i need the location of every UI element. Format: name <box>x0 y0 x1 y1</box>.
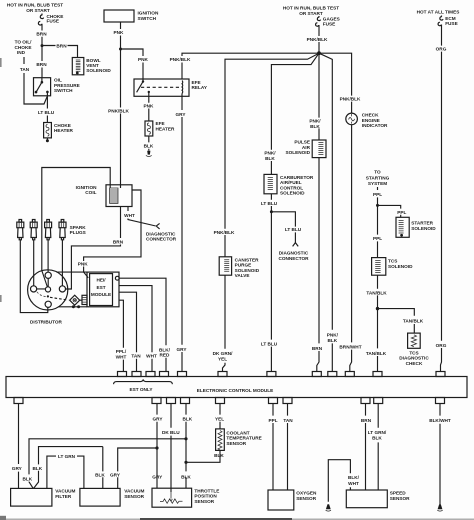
svg-text:GRY: GRY <box>152 474 163 479</box>
wire DK GRN/YEL canister to ECM <box>223 275 226 371</box>
switch OIL PRESSURE SWITCH <box>34 78 80 96</box>
wire LT GRN/BLK ECM to speed sensor <box>368 404 387 491</box>
ground (EFE heater) <box>146 151 152 157</box>
wire pickup dashed line to connector <box>50 297 68 300</box>
wire pickup dashed arc <box>37 292 47 297</box>
svg-text:BLK: BLK <box>144 144 154 149</box>
wire BRN from choke fuse <box>36 26 47 46</box>
svg-text:BLK: BLK <box>310 124 320 129</box>
pin ECM top: GRY <box>178 372 187 377</box>
svg-text:GRY: GRY <box>12 466 23 471</box>
svg-text:TAN: TAN <box>283 418 293 423</box>
distributor cap terminal (bottom) <box>45 301 51 307</box>
wire BLK/WHT ECM to ground <box>429 404 451 505</box>
svg-text:PNK: PNK <box>144 103 155 108</box>
svg-text:SOLENOID: SOLENOID <box>280 191 305 196</box>
wire module pin to TAN <box>119 292 137 371</box>
wire spark plug 3 lead <box>47 240 49 272</box>
node: TO OIL/CHOKE IND <box>15 40 33 55</box>
box SPEED SENSOR <box>346 490 410 508</box>
coil IGNITION COIL <box>76 185 132 207</box>
svg-text:PPL: PPL <box>268 418 277 423</box>
pin ECM top: WHT <box>146 372 155 377</box>
wire PNK/BLK to pulse air solenoid <box>309 53 321 140</box>
wire GRY ECM to TPS <box>153 404 164 489</box>
pin ECM bottom: LT GRN/BLK <box>374 398 383 404</box>
svg-text:BLK: BLK <box>265 156 275 161</box>
spark plug 2 <box>30 220 37 240</box>
svg-text:BLK: BLK <box>214 453 224 458</box>
node: BLK/RED label <box>159 347 171 357</box>
fuse CHOKE FUSE <box>38 14 63 26</box>
wire module pin to WHT <box>119 286 152 372</box>
wire TAN/BLK to ECM <box>366 309 387 372</box>
node: DIAGNOSTIC CONNECTOR label (center) <box>278 251 309 261</box>
node: DIAGNOSTIC CONNECTOR label (left) <box>146 231 177 241</box>
wire BRN ECM to speed sensor <box>361 404 372 491</box>
svg-text:VALVE: VALVE <box>235 273 250 278</box>
svg-text:LT BLU: LT BLU <box>261 342 278 347</box>
svg-text:CONNECTOR: CONNECTOR <box>146 237 177 242</box>
wire DK BLU ECM to TPS wiper <box>162 404 180 493</box>
pin ECM top: DK GRN/YEL <box>218 372 227 377</box>
node junction BLK (coolant line) <box>184 461 187 464</box>
wire GRY from EFE relay down to ECM <box>176 93 187 371</box>
svg-text:PNK/BLK: PNK/BLK <box>108 108 129 113</box>
svg-text:SYSTEM: SYSTEM <box>368 181 387 186</box>
svg-text:GRY: GRY <box>153 416 164 421</box>
wire BRN branch to bowl vent solenoid <box>42 43 78 57</box>
svg-text:TO: TO <box>374 170 381 175</box>
svg-text:RELAY: RELAY <box>192 85 208 90</box>
svg-text:TAN: TAN <box>131 354 141 359</box>
solenoid TCS SOLENOID <box>372 258 413 276</box>
pin ECM top: TAN <box>132 372 141 377</box>
lamp CHECK ENGINE INDICATOR <box>346 113 388 128</box>
wire BRN down to oil pressure switch <box>36 46 47 78</box>
wire BLK vacuum filter to vacuum sensor <box>32 447 102 489</box>
svg-text:BRN: BRN <box>56 43 67 48</box>
svg-text:SOLENOID: SOLENOID <box>411 226 436 231</box>
pin ECM bottom: DK BLU <box>167 398 176 404</box>
connector pickup coil (diamond) <box>70 295 80 305</box>
resistor CHOKE HEATER <box>44 123 74 143</box>
svg-text:TAN/BLK: TAN/BLK <box>403 319 424 324</box>
svg-text:PNK: PNK <box>78 261 89 266</box>
svg-text:ORG: ORG <box>436 47 447 52</box>
distributor cap terminal (left) <box>30 286 36 292</box>
svg-text:DK GRN/: DK GRN/ <box>213 351 233 356</box>
svg-text:SOLENOID: SOLENOID <box>286 150 311 155</box>
wire PPL to TCS solenoid <box>373 205 382 257</box>
svg-text:PNK/BLK: PNK/BLK <box>214 230 235 235</box>
svg-text:PNK/BLK: PNK/BLK <box>170 57 191 62</box>
svg-text:SENSOR: SENSOR <box>194 499 214 504</box>
node: HOT IN RUN feed (left) <box>7 3 63 13</box>
pin ECM bottom: TAN <box>283 398 292 404</box>
svg-text:BRN: BRN <box>113 239 124 244</box>
svg-text:BLK: BLK <box>182 416 192 421</box>
svg-text:STARTING: STARTING <box>366 175 390 180</box>
pin ECM bottom: BRN <box>361 398 370 404</box>
pin ECM bottom: PPL <box>269 398 278 404</box>
solenoid CANISTER PURGE SOLENOID VALVE <box>219 257 259 278</box>
solenoid CARBURETOR AIR/FUEL CONTROL SOLENOID <box>264 174 314 195</box>
wire spark plug 1 lead <box>20 240 48 313</box>
svg-text:HEI/: HEI/ <box>96 278 106 283</box>
node: SPARK PLUGS label <box>70 225 87 235</box>
wire PNK/BLK from gages fuse <box>307 27 328 54</box>
resistor COOLANT TEMPERATURE SENSOR <box>216 429 262 451</box>
svg-text:PNK: PNK <box>114 30 125 35</box>
wire LT BLU from carb solenoid <box>261 194 278 212</box>
svg-text:HOT AT ALL TIMES: HOT AT ALL TIMES <box>417 10 460 15</box>
svg-text:GRY: GRY <box>177 347 188 352</box>
svg-text:COIL: COIL <box>85 190 96 195</box>
module HEI/EST MODULE <box>82 272 119 307</box>
wire spark plug 4 lead <box>61 240 63 286</box>
svg-text:TAN/BLK: TAN/BLK <box>366 351 387 356</box>
wire BLK vacuum sensor lead <box>95 447 105 489</box>
wire PNK/BLK main from ignition switch down to coil <box>108 49 129 185</box>
spark plug 3 <box>45 220 52 240</box>
box VACUUM SENSOR <box>80 488 145 506</box>
pin ECM top: PNK/BLK <box>328 372 337 377</box>
svg-text:BLK: BLK <box>327 338 337 343</box>
wire distributor to module (bottom, pickup return) <box>58 306 87 308</box>
wire PNK/BLK to check engine indicator <box>319 53 361 113</box>
solenoid PULSE AIR SOLENOID <box>286 140 326 158</box>
distributor cap terminal (top) <box>45 272 51 278</box>
pin ECM bottom: YEL <box>216 398 225 404</box>
wire LT BLU to ECM <box>261 212 278 372</box>
spark plug 4 <box>59 220 66 240</box>
solenoid STARTER SOLENOID <box>396 217 436 237</box>
svg-text:ELECTRONIC CONTROL MODULE: ELECTRONIC CONTROL MODULE <box>197 388 273 393</box>
svg-text:EST: EST <box>96 285 105 290</box>
wire LT BLU branch to diagnostic connector <box>271 212 301 243</box>
svg-text:FILTER: FILTER <box>55 494 72 499</box>
svg-text:SWITCH: SWITCH <box>138 16 157 21</box>
wire BLK/WHT speed sensor to ground <box>328 460 359 502</box>
wire module pin to PPL/WHT <box>119 300 123 371</box>
wire LT BLU to choke heater <box>38 92 55 123</box>
svg-text:BRN: BRN <box>36 32 47 37</box>
spark plug 1 <box>17 220 24 240</box>
svg-text:SOLENOID: SOLENOID <box>388 264 413 269</box>
svg-text:LT GRN/: LT GRN/ <box>368 430 387 435</box>
svg-text:TAN: TAN <box>20 67 30 72</box>
node junction GRY <box>155 446 158 449</box>
wire TAN ECM to oxygen sensor <box>283 404 293 491</box>
wire branch to carburetor solenoid (PNK/BLK) <box>264 53 319 174</box>
node rotor pickup dot <box>47 295 49 297</box>
relay EFE RELAY <box>134 79 208 96</box>
potentiometer THROTTLE POSITION SENSOR <box>152 488 219 507</box>
wire BRN from coil to distributor <box>66 207 124 290</box>
svg-text:DISTRIBUTOR: DISTRIBUTOR <box>30 320 63 325</box>
distributor cap terminal (right) <box>59 286 65 292</box>
pin ECM top: ORG <box>436 372 445 377</box>
svg-text:OR START: OR START <box>26 8 50 13</box>
wire PNK branch to EFE relay <box>121 49 149 79</box>
svg-text:IND: IND <box>17 50 26 55</box>
svg-text:GRY: GRY <box>176 112 187 117</box>
wire branch to canister purge solenoid (PNK/BLK) <box>214 53 319 257</box>
svg-text:FUSE: FUSE <box>47 19 60 24</box>
svg-text:PNK: PNK <box>138 57 149 62</box>
svg-text:HOT IN RUN, BULB TEST: HOT IN RUN, BULB TEST <box>283 6 339 11</box>
distributor housing circle <box>28 270 68 310</box>
wire cap-to-rotor links <box>37 278 49 289</box>
resistor EFE HEATER <box>145 121 175 136</box>
node: PPL/WHT label <box>116 349 127 359</box>
svg-text:BRN/WHT: BRN/WHT <box>339 344 361 349</box>
svg-text:BLK: BLK <box>372 436 382 441</box>
wire BLK vacuum filter to coolant BLK node <box>22 439 186 489</box>
wire BLK to ground <box>144 136 154 151</box>
node junction dot (pickup line a) <box>72 305 75 308</box>
fuse ECM FUSE <box>438 16 458 27</box>
svg-text:DK BLU: DK BLU <box>162 430 180 435</box>
wire spark plug 2 lead <box>33 240 35 286</box>
wire module pin to BLK/RED <box>119 278 166 371</box>
wire rotor lead from coil <box>42 271 48 288</box>
node: HOT IN RUN feed (center) <box>283 6 339 16</box>
pin ECM top: BLK/RED <box>160 372 169 377</box>
svg-text:MODULE: MODULE <box>91 292 111 297</box>
pin ECM top: BRN <box>312 372 321 377</box>
wire BRN/WHT indicator to ECM <box>339 125 361 372</box>
svg-text:BRN: BRN <box>361 418 372 423</box>
fuse GAGES FUSE <box>316 16 340 27</box>
wire TAN/BLK from TCS solenoid <box>366 275 387 308</box>
node fan junction PNK/BLK <box>317 51 321 55</box>
svg-text:PPL: PPL <box>397 210 406 215</box>
svg-text:BLK: BLK <box>95 472 105 477</box>
wire BLK coolant sensor return <box>186 450 224 462</box>
node: TO STARTING SYSTEM <box>366 170 390 187</box>
svg-text:SOLENOID: SOLENOID <box>86 68 111 73</box>
wire GRY vacuum sensor to GRY junction <box>110 448 157 488</box>
scan artifacts (bottom border) <box>0 519 474 520</box>
svg-text:SENSOR: SENSOR <box>124 494 144 499</box>
svg-text:RED: RED <box>160 353 171 358</box>
wire GRY ECM to vacuum filter <box>12 404 23 489</box>
resistor TCS DIAGNOSTIC CHECK <box>399 333 429 366</box>
wire PNK/BLK from fan junction to EFE relay coil <box>170 53 319 79</box>
svg-text:EST ONLY: EST ONLY <box>129 387 153 392</box>
svg-text:LT BLU: LT BLU <box>285 227 302 232</box>
svg-text:BLK: BLK <box>181 474 191 479</box>
wire PNK/BLK (fan) to ECM <box>319 53 339 371</box>
svg-text:SENSOR: SENSOR <box>296 496 316 501</box>
wire coil secondary lead (horizontal to distributor) <box>42 168 110 271</box>
svg-text:PNK/BLK: PNK/BLK <box>307 37 328 42</box>
svg-text:HEATER: HEATER <box>54 128 74 133</box>
svg-text:PPL: PPL <box>373 192 382 197</box>
ground (speed sensor) <box>326 504 331 511</box>
pin ECM top: LT BLU <box>267 372 276 377</box>
pin ECM top: TAN/BLK <box>373 372 382 377</box>
svg-text:LT BLU: LT BLU <box>261 201 278 206</box>
wire TAN to oil pressure switch <box>20 57 48 104</box>
svg-text:SWITCH: SWITCH <box>54 88 73 93</box>
pin ECM top: BRN/WHT <box>345 372 354 377</box>
node junction dot (pickup line b) <box>77 305 80 308</box>
wire BRN pulse air to ECM <box>312 158 323 372</box>
svg-text:BLK: BLK <box>22 476 32 481</box>
svg-text:TAN/BLK: TAN/BLK <box>366 290 387 295</box>
svg-text:BLK/WHT: BLK/WHT <box>429 418 451 423</box>
switch IGNITION SWITCH <box>104 10 159 22</box>
connector arrow (diagnostic, LT BLU) <box>293 243 299 247</box>
svg-text:WHT: WHT <box>116 354 127 359</box>
node junction BRN <box>41 44 44 47</box>
wire PPL branch to starter solenoid <box>378 205 407 217</box>
svg-text:PNK/: PNK/ <box>327 333 339 338</box>
svg-text:PLUGS: PLUGS <box>70 230 86 235</box>
wire PNK to EFE heater <box>144 92 155 121</box>
wire PPL from starting system <box>373 187 382 205</box>
wire diamond to module tab <box>80 299 82 301</box>
svg-text:INDICATOR: INDICATOR <box>362 123 388 128</box>
svg-text:WHT: WHT <box>124 213 135 218</box>
svg-text:FUSE: FUSE <box>323 22 336 27</box>
svg-text:YEL: YEL <box>218 356 227 361</box>
solenoid BOWL VENT SOLENOID <box>72 58 111 75</box>
svg-text:LT BLU: LT BLU <box>38 110 55 115</box>
wire YEL ECM to coolant sensor <box>215 404 224 429</box>
pin ECM bottom: BLK <box>181 398 190 404</box>
wire PPL ECM to oxygen sensor <box>268 404 277 491</box>
svg-text:ORG: ORG <box>436 343 447 348</box>
wire TAN/BLK branch to TCS diagnostic check <box>378 309 424 334</box>
svg-text:YEL: YEL <box>215 416 224 421</box>
svg-text:OR START: OR START <box>299 11 323 16</box>
wire ORG to ECM <box>436 26 447 372</box>
wire WHT from coil to diagnostic connector <box>124 207 156 227</box>
svg-text:BLK: BLK <box>32 466 42 471</box>
svg-text:HEATER: HEATER <box>156 126 176 131</box>
wire BLK ECM down with junctions <box>181 404 193 489</box>
pin ECM top: PPL/WHT <box>118 372 127 377</box>
wire distributor housing to module (top) <box>56 271 87 273</box>
box VACUUM FILTER <box>11 488 76 506</box>
svg-text:PPL: PPL <box>373 236 382 241</box>
node junction PPL <box>376 204 379 207</box>
svg-text:CHECK: CHECK <box>406 361 423 366</box>
node junction TAN/BLK <box>376 307 379 310</box>
node: DK GRN/YEL label <box>213 351 233 362</box>
pin ECM bottom: BLK/WHT <box>436 398 445 404</box>
node junction BLK (filter line) <box>184 437 187 440</box>
wire PNK from ignition switch <box>114 22 125 49</box>
svg-text:BLK/: BLK/ <box>348 475 360 480</box>
svg-text:BRN: BRN <box>312 346 323 351</box>
ground (BLK/WHT) <box>437 504 442 511</box>
svg-text:HOT IN RUN, BLUB TEST: HOT IN RUN, BLUB TEST <box>7 3 63 8</box>
svg-text:GRY: GRY <box>110 472 121 477</box>
svg-text:SENSOR: SENSOR <box>390 496 410 501</box>
box OXYGEN SENSOR <box>268 490 317 510</box>
svg-text:FUSE: FUSE <box>445 21 458 26</box>
node: EST ONLY bracket <box>114 379 173 391</box>
module ELECTRONIC CONTROL MODULE (bar) <box>6 377 467 398</box>
wire LT GRN vacuum filter to vacuum sensor <box>47 454 84 488</box>
svg-text:SENSOR: SENSOR <box>226 441 246 446</box>
svg-text:WHT: WHT <box>146 354 157 359</box>
pin ECM bottom: GRY <box>152 398 161 404</box>
distributor rotor center <box>45 287 50 292</box>
wire coil output to HEI module (PNK) <box>78 190 141 278</box>
node junction PNK <box>119 48 122 51</box>
svg-text:BRN: BRN <box>36 62 47 67</box>
svg-text:LT GRN: LT GRN <box>58 454 76 459</box>
svg-text:CONNECTOR: CONNECTOR <box>278 256 309 261</box>
svg-text:PNK/BLK: PNK/BLK <box>340 97 361 102</box>
node junction LT BLU <box>270 210 273 213</box>
svg-text:WHT: WHT <box>348 481 359 486</box>
connector arrow (diagnostic, WHT) <box>156 223 159 229</box>
pin ECM bottom: GRY (vacuum filter) <box>14 398 23 404</box>
